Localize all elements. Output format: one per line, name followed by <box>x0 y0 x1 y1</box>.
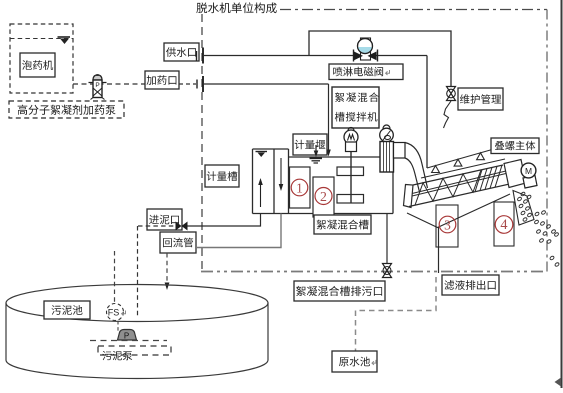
sludge pool top ellipse <box>6 285 268 322</box>
dosing branch down into tank <box>326 84 331 157</box>
screw press rim <box>421 159 505 178</box>
label 加药口 <box>145 71 179 89</box>
svg-text:P: P <box>95 82 99 89</box>
boundary top border (dash-dot) <box>280 9 547 11</box>
svg-text:1: 1 <box>296 181 303 196</box>
press cover line <box>427 145 508 168</box>
svg-text:4: 4 <box>500 217 507 233</box>
svg-text:FS: FS <box>108 308 120 318</box>
spray pipe down into press <box>426 56 428 169</box>
leg 4 <box>494 202 514 246</box>
cover clamp triangles <box>432 166 440 173</box>
lift pump <box>380 125 405 172</box>
filtrate funnel <box>407 194 510 228</box>
dosing dashed line from dissolver to dosing port <box>73 83 145 85</box>
up-flow arrow <box>258 178 263 207</box>
pump base dashed line <box>90 340 167 342</box>
dosing dashed link <box>179 83 196 85</box>
scrollbar arrow <box>555 378 562 387</box>
boundary right border (dash-dot) <box>546 10 548 272</box>
metering tank walls <box>253 149 289 214</box>
label 进泥口 <box>147 209 182 230</box>
label 絮凝混合槽排污口 <box>294 281 385 301</box>
agitator label box 絮凝混合槽搅拌机 <box>332 87 379 128</box>
dosing pipe <box>204 83 329 85</box>
svg-text:P: P <box>124 332 129 341</box>
mixing tank drain pipe <box>386 214 388 264</box>
circled number 1 (pos1) <box>291 179 308 196</box>
agitator paddles <box>337 167 364 176</box>
dosing port flange <box>197 76 203 92</box>
mixing tank walls <box>253 157 394 214</box>
label 滤液排出口 <box>442 275 499 295</box>
agitator shaft <box>350 144 352 203</box>
maintenance valve <box>447 87 456 101</box>
agitator motor <box>344 128 358 152</box>
circled number 2 (pos2) <box>315 188 332 205</box>
boundary left border (dashed) <box>201 14 203 271</box>
float switch FS <box>107 304 126 321</box>
leg 3 <box>436 205 458 247</box>
label 喷淋电磁阀 <box>329 64 403 80</box>
cake discharge chute <box>513 191 534 226</box>
baffle 1 <box>290 167 311 208</box>
page right edge line <box>561 0 563 388</box>
screw trough top edge <box>413 165 503 185</box>
supply port flange <box>197 48 204 64</box>
sludge pump dome P <box>118 330 137 341</box>
FS cable to pump <box>117 321 119 333</box>
label 污泥池 <box>44 301 90 319</box>
label 回流管 <box>160 232 196 253</box>
label 计量槽 <box>205 165 239 187</box>
dissolving unit dashed enclosure <box>10 24 73 93</box>
sludge inlet pipe <box>188 214 261 227</box>
filtrate dashed route to raw water basin <box>356 277 437 351</box>
liquid level dashed line <box>10 38 73 40</box>
sludge pump dashed box <box>98 346 171 355</box>
label 高分子絮凝剂加药泵 <box>9 101 124 118</box>
screw drive motor M <box>521 163 537 188</box>
label 污泥泵 <box>102 351 132 360</box>
bypass pipe over the top <box>309 31 451 86</box>
maintenance drain squiggle <box>444 101 452 128</box>
label 供水口 <box>164 43 199 61</box>
label 原水池 <box>332 351 377 372</box>
tank level symbol <box>256 152 268 158</box>
screw dense flights <box>475 165 502 192</box>
pool bottom arc <box>6 360 268 379</box>
svg-text:M: M <box>525 166 532 176</box>
drain valve <box>383 264 392 278</box>
svg-text:2: 2 <box>320 189 327 204</box>
label 泡药机 <box>20 53 55 77</box>
inlet valve <box>176 222 188 231</box>
suction drop to pump <box>137 226 139 318</box>
return pipe <box>196 214 281 248</box>
circled number 3 (pos3) <box>439 216 456 233</box>
discharge end box <box>504 160 526 188</box>
circled number 4 (pos4) <box>495 216 513 234</box>
label 维护管理 <box>458 88 503 110</box>
weir pointer arrow <box>314 145 319 157</box>
screw flights zigzag <box>415 170 481 205</box>
pool walls <box>6 303 268 360</box>
cake droplets <box>517 192 560 267</box>
spray solenoid valve <box>354 38 378 62</box>
down-flow arrow <box>279 158 284 191</box>
label unit title 脱水机单位构成 <box>196 2 276 13</box>
label 计量堰 <box>293 134 327 155</box>
svg-text:3: 3 <box>444 218 451 233</box>
screw trough bottom edge <box>409 184 512 207</box>
water supply pipe <box>204 55 427 57</box>
baffle 2 <box>313 177 334 217</box>
weir symbol <box>310 158 323 163</box>
boundary bottom border (dash-dot) <box>201 271 547 273</box>
label 叠螺主体 <box>491 138 539 154</box>
level symbol <box>58 37 71 44</box>
elbow pipe to press <box>405 143 428 189</box>
FS signal dashed line <box>114 251 116 304</box>
screw axis <box>412 171 508 197</box>
sludge inlet dashed suction <box>138 225 175 227</box>
filtrate pipe <box>438 228 440 274</box>
return pipe dashed drop <box>165 253 170 290</box>
screw left end cap <box>404 185 414 208</box>
dosing pump icon <box>89 74 107 100</box>
label 絮凝混合槽 <box>314 215 371 234</box>
